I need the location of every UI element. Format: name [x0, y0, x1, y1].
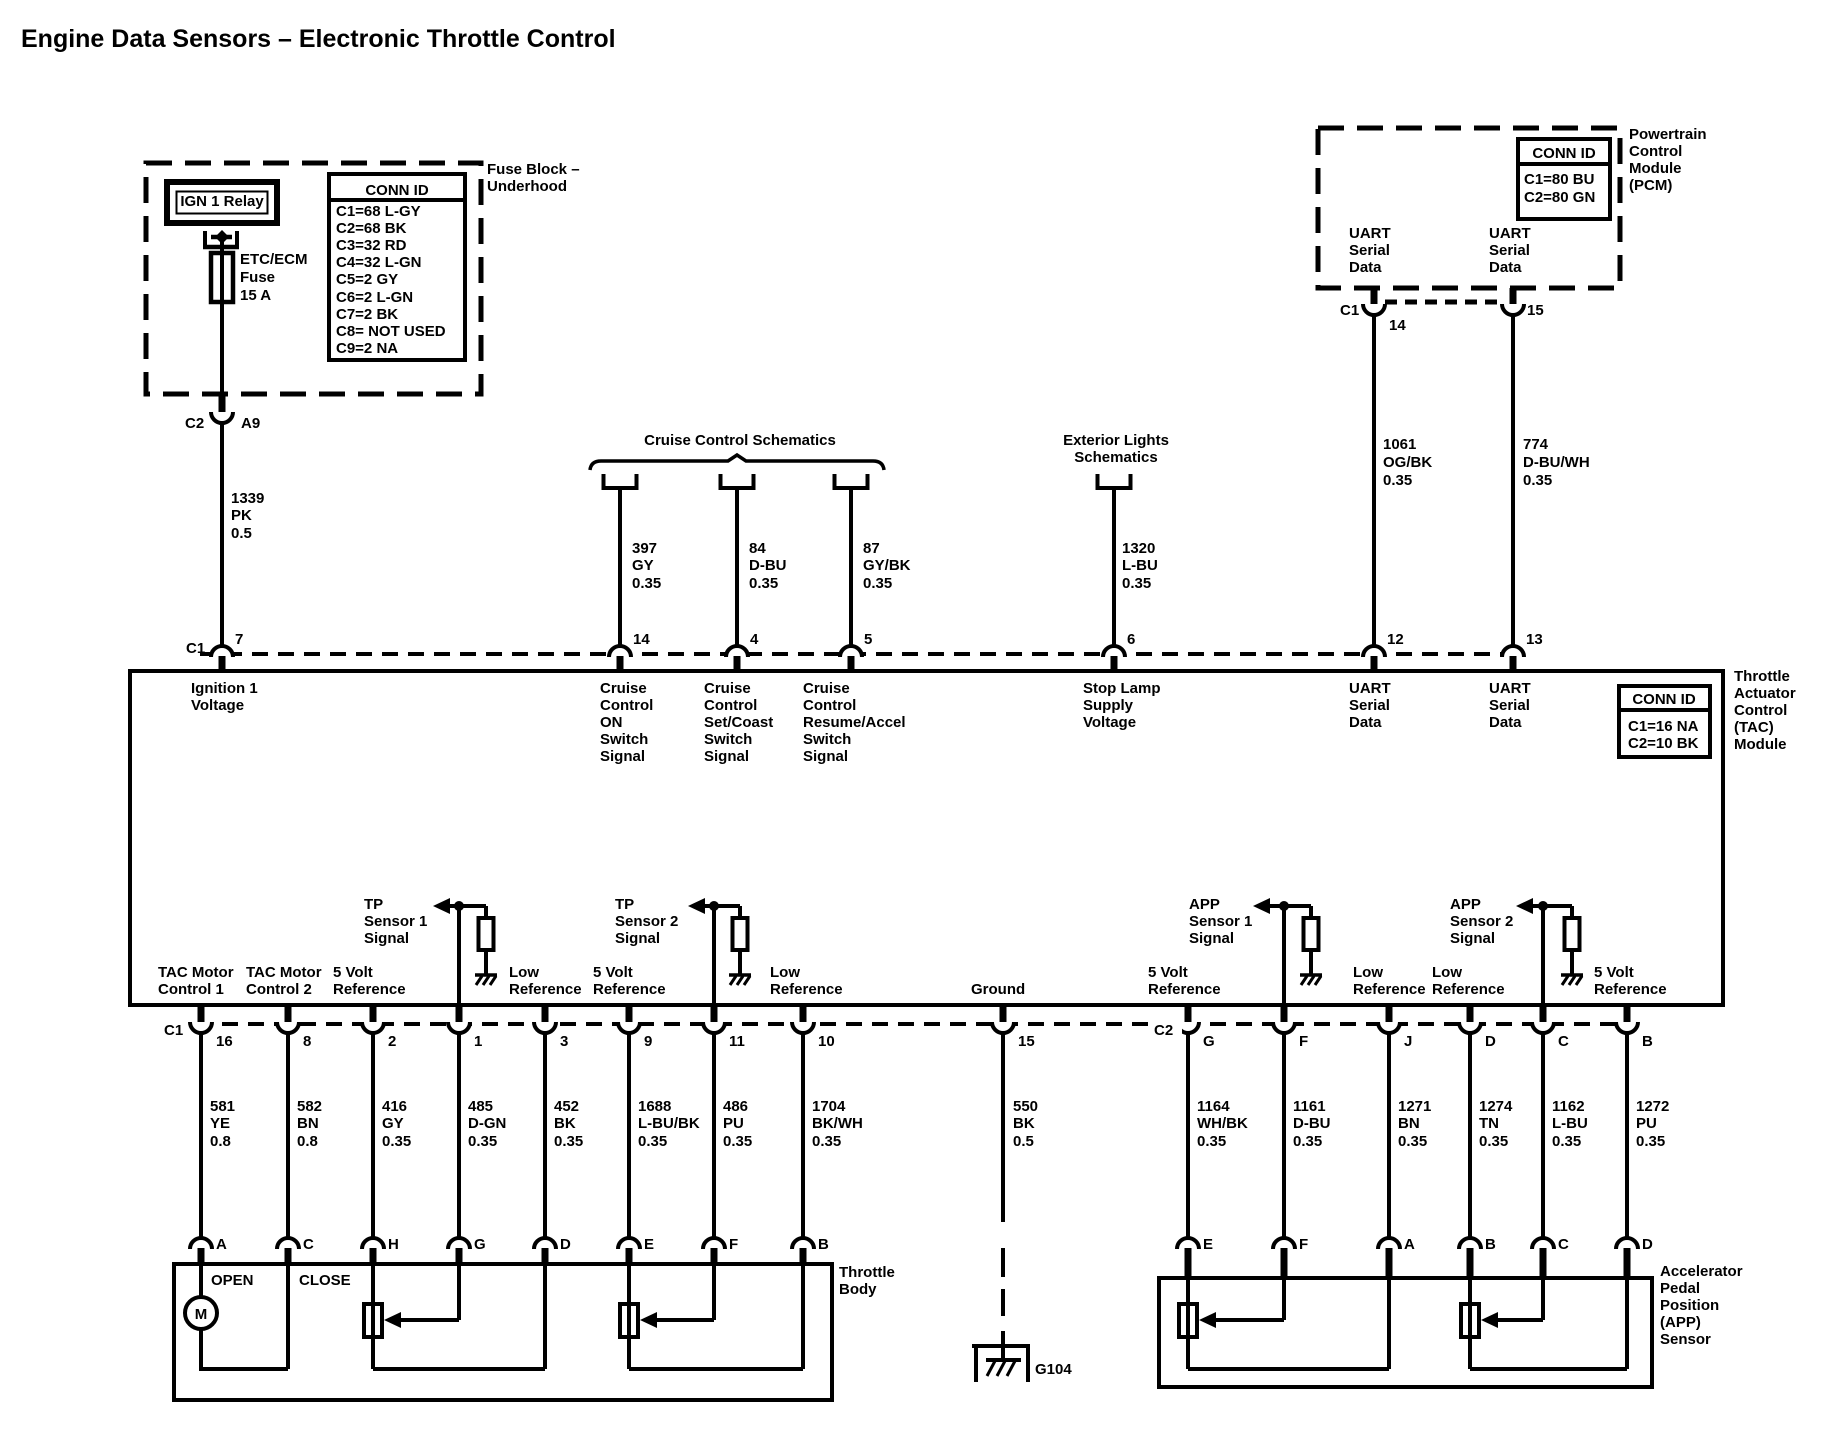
wire 581 YE 0.8 [199, 1033, 203, 1240]
svg-text:A: A [1404, 1236, 1415, 1253]
motor M (throttle motor) [199, 1266, 203, 1297]
svg-text:0.35: 0.35 [1122, 575, 1151, 592]
svg-text:0.35: 0.35 [382, 1133, 411, 1150]
connector pin C (APP sensor) [1532, 1238, 1554, 1249]
svg-text:0.35: 0.35 [554, 1133, 583, 1150]
svg-text:Serial: Serial [1489, 242, 1530, 259]
wire 1339 PK 0.5 [220, 423, 224, 648]
svg-text:Cruise Control Schematics: Cruise Control Schematics [644, 432, 836, 449]
arrow wiper APP sensor 1 [1199, 1312, 1216, 1328]
svg-text:C2: C2 [185, 415, 204, 432]
wire TP sensor 2 wiper (E) [627, 1266, 631, 1369]
svg-text:0.35: 0.35 [1479, 1133, 1508, 1150]
svg-text:C1: C1 [186, 640, 205, 657]
svg-text:416: 416 [382, 1098, 407, 1115]
junction dot [709, 901, 719, 911]
dashed connector line (PCM C1) [1385, 300, 1502, 305]
svg-text:Control: Control [1734, 702, 1787, 719]
svg-text:Engine Data Sensors – Electron: Engine Data Sensors – Electronic Throttl… [21, 25, 616, 53]
accelerator pedal position (APP) sensor box [1159, 1278, 1652, 1387]
svg-text:CONN ID: CONN ID [1532, 145, 1596, 162]
svg-text:C1=80 BU: C1=80 BU [1524, 171, 1594, 188]
fuse F ETC/ECM 15 A [211, 253, 233, 302]
svg-text:BN: BN [297, 1115, 319, 1132]
connector C1 pin 6 (TAC top) [1103, 646, 1125, 657]
svg-text:Stop Lamp: Stop Lamp [1083, 680, 1161, 697]
wire (signal tap) [448, 904, 486, 908]
svg-text:(TAC): (TAC) [1734, 719, 1774, 736]
svg-text:GY: GY [632, 557, 654, 574]
wire motor to close winding [199, 1329, 203, 1369]
wire APP sensor 1 5V (E) [1186, 1280, 1190, 1369]
wire junction to pin [712, 906, 716, 1005]
svg-text:15: 15 [1527, 302, 1544, 319]
svg-text:Signal: Signal [600, 748, 645, 765]
svg-text:84: 84 [749, 540, 766, 557]
arrow (Sensor 1 signal) [433, 898, 450, 914]
wire junction to pin [1541, 906, 1545, 1005]
svg-text:0.35: 0.35 [1398, 1133, 1427, 1150]
svg-text:485: 485 [468, 1098, 493, 1115]
throttle body box [174, 1264, 832, 1400]
svg-text:CONN ID: CONN ID [1632, 691, 1696, 708]
svg-text:GY/BK: GY/BK [863, 557, 911, 574]
svg-text:WH/BK: WH/BK [1197, 1115, 1248, 1132]
svg-text:0.35: 0.35 [863, 575, 892, 592]
svg-text:Reference: Reference [770, 981, 843, 998]
svg-text:GY: GY [382, 1115, 404, 1132]
svg-text:Data: Data [1489, 714, 1522, 731]
wire 84 D-BU 0.35 [735, 488, 739, 648]
svg-text:Control: Control [803, 697, 856, 714]
chassis ground [475, 973, 497, 977]
svg-text:OPEN: OPEN [211, 1272, 254, 1289]
svg-text:0.5: 0.5 [231, 525, 252, 542]
brace (cruise control schematics) [590, 455, 884, 470]
connector C1 pin 11 (TAC bottom) [711, 1005, 718, 1022]
svg-text:87: 87 [863, 540, 880, 557]
svg-text:12: 12 [1387, 631, 1404, 648]
svg-text:774: 774 [1523, 436, 1549, 453]
svg-text:1704: 1704 [812, 1098, 846, 1115]
svg-text:0.35: 0.35 [1293, 1133, 1322, 1150]
svg-text:UART: UART [1489, 680, 1531, 697]
svg-text:1162: 1162 [1552, 1098, 1585, 1115]
CONN ID table (PCM) [1518, 139, 1610, 219]
svg-text:Signal: Signal [615, 930, 660, 947]
fuse block - underhood dashed box [146, 163, 481, 394]
connector C2 pin J (TAC bottom) [1386, 1005, 1393, 1022]
svg-text:B: B [1642, 1033, 1653, 1050]
svg-text:C2: C2 [1154, 1022, 1173, 1039]
connector C2 pin A9 (fuse block output) [219, 394, 226, 412]
svg-text:3: 3 [560, 1033, 568, 1050]
svg-text:B: B [818, 1236, 829, 1253]
label C2 (TAC bottom row) [1149, 1018, 1182, 1037]
connector C1 pin 1 (TAC bottom) [456, 1005, 463, 1022]
svg-text:Control: Control [1629, 143, 1682, 160]
svg-text:Data: Data [1349, 714, 1382, 731]
connector pin B (throttle body) [792, 1238, 814, 1249]
svg-text:Low: Low [509, 964, 539, 981]
svg-text:Signal: Signal [364, 930, 409, 947]
connector pin G (throttle body) [448, 1238, 470, 1249]
svg-text:7: 7 [235, 631, 243, 648]
wire APP sensor 2 5V (B) [1468, 1280, 1472, 1369]
svg-text:Ignition 1: Ignition 1 [191, 680, 258, 697]
svg-text:Fuse Block –: Fuse Block – [487, 161, 580, 178]
svg-text:Control 2: Control 2 [246, 981, 312, 998]
connector pin D (throttle body) [534, 1238, 556, 1249]
svg-text:L-BU/BK: L-BU/BK [638, 1115, 700, 1132]
svg-text:5 Volt: 5 Volt [333, 964, 373, 981]
svg-text:E: E [644, 1236, 654, 1253]
svg-text:Throttle: Throttle [1734, 668, 1790, 685]
svg-text:ETC/ECM: ETC/ECM [240, 251, 308, 268]
svg-text:Module: Module [1629, 160, 1682, 177]
svg-text:8: 8 [303, 1033, 311, 1050]
svg-text:PK: PK [231, 507, 252, 524]
svg-text:C9=2 NA: C9=2 NA [336, 340, 398, 357]
arrow wiper APP sensor 2 [1481, 1312, 1498, 1328]
svg-text:D: D [1642, 1236, 1653, 1253]
svg-text:C: C [303, 1236, 314, 1253]
svg-text:C: C [1558, 1033, 1569, 1050]
svg-text:C8= NOT USED: C8= NOT USED [336, 323, 446, 340]
wire 1274 TN 0.35 [1468, 1033, 1472, 1240]
dashed ground wire segments [1001, 1248, 1005, 1277]
svg-text:5 Volt: 5 Volt [593, 964, 633, 981]
svg-text:1164: 1164 [1197, 1098, 1230, 1115]
svg-text:14: 14 [1389, 317, 1406, 334]
svg-text:Fuse: Fuse [240, 269, 275, 286]
svg-text:Reference: Reference [333, 981, 406, 998]
svg-text:0.35: 0.35 [1552, 1133, 1581, 1150]
chassis ground [729, 973, 751, 977]
svg-text:Reference: Reference [593, 981, 666, 998]
connector C1 pin 4 (TAC top) [726, 646, 748, 657]
svg-text:Voltage: Voltage [191, 697, 244, 714]
wire 1688 L-BU/BK 0.35 [627, 1033, 631, 1240]
connector C1 pin 14 (PCM) [1371, 288, 1378, 304]
svg-text:BK/WH: BK/WH [812, 1115, 863, 1132]
svg-text:1271: 1271 [1398, 1098, 1431, 1115]
svg-text:C2=80 GN: C2=80 GN [1524, 189, 1595, 206]
svg-text:F: F [1299, 1033, 1308, 1050]
svg-text:C3=32 RD: C3=32 RD [336, 237, 407, 254]
dashed connector line C1 (TAC top) [200, 652, 1515, 656]
svg-text:D-BU/WH: D-BU/WH [1523, 454, 1590, 471]
svg-text:Switch: Switch [704, 731, 752, 748]
wire 774 D-BU/WH 0.35 [1511, 315, 1515, 648]
svg-text:1272: 1272 [1636, 1098, 1669, 1115]
connector C1 pin 3 (TAC bottom) [542, 1005, 549, 1022]
wire 87 GY/BK 0.35 [849, 488, 853, 648]
wire 1161 D-BU 0.35 [1282, 1033, 1286, 1240]
connector C1 pin 14 (TAC top) [609, 646, 631, 657]
connector pin E (APP sensor) [1177, 1238, 1199, 1249]
svg-text:Exterior Lights: Exterior Lights [1063, 432, 1169, 449]
svg-text:0.8: 0.8 [210, 1133, 231, 1150]
svg-text:BK: BK [554, 1115, 576, 1132]
svg-text:YE: YE [210, 1115, 230, 1132]
svg-text:Control 1: Control 1 [158, 981, 224, 998]
wire APP sensor 1 low (A) [1188, 1367, 1389, 1371]
svg-text:D-GN: D-GN [468, 1115, 506, 1132]
wire 1320 L-BU 0.35 [1112, 488, 1116, 648]
svg-text:15: 15 [1018, 1033, 1035, 1050]
svg-text:10: 10 [818, 1033, 835, 1050]
svg-text:TP: TP [615, 896, 634, 913]
svg-text:0.35: 0.35 [749, 575, 778, 592]
wire 452 BK 0.35 [543, 1033, 547, 1240]
potentiometer TP sensor 1 [364, 1304, 382, 1337]
svg-text:Throttle: Throttle [839, 1264, 895, 1281]
svg-text:Pedal: Pedal [1660, 1280, 1700, 1297]
connector pin F (APP sensor) [1273, 1238, 1295, 1249]
svg-text:Resume/Accel: Resume/Accel [803, 714, 906, 731]
off-page connector (exterior lights) [1098, 474, 1131, 488]
wire 485 D-GN 0.35 [457, 1033, 461, 1240]
svg-text:0.5: 0.5 [1013, 1133, 1034, 1150]
off-page connector (cruise wire 397) [604, 474, 637, 488]
svg-text:1: 1 [474, 1033, 482, 1050]
connector pin B (APP sensor) [1459, 1238, 1481, 1249]
svg-text:486: 486 [723, 1098, 748, 1115]
svg-text:4: 4 [750, 631, 759, 648]
connector C2 pin F (TAC bottom) [1281, 1005, 1288, 1022]
connector C1 pin 10 (TAC bottom) [800, 1005, 807, 1022]
wire (signal tap) [1268, 904, 1311, 908]
wire 1162 L-BU 0.35 [1541, 1033, 1545, 1240]
svg-text:Serial: Serial [1489, 697, 1530, 714]
svg-text:L-BU: L-BU [1552, 1115, 1588, 1132]
connector pin H (throttle body) [362, 1238, 384, 1249]
svg-text:G: G [474, 1236, 486, 1253]
wire (signal tap) [703, 904, 740, 908]
wire junction to pin [1282, 906, 1286, 1005]
svg-text:1061: 1061 [1383, 436, 1416, 453]
svg-text:397: 397 [632, 540, 657, 557]
wire 416 GY 0.35 [371, 1033, 375, 1240]
wire 1271 BN 0.35 [1387, 1033, 1391, 1240]
connector C1 pin 15 (PCM) [1510, 288, 1517, 304]
wire (signal tap) [1531, 904, 1572, 908]
arrow (Sensor 1 signal) [1253, 898, 1270, 914]
svg-text:APP: APP [1450, 896, 1481, 913]
connector C1 pin 5 (TAC top) [840, 646, 862, 657]
connector C2 pin D (TAC bottom) [1467, 1005, 1474, 1022]
svg-text:550: 550 [1013, 1098, 1038, 1115]
svg-text:OG/BK: OG/BK [1383, 454, 1432, 471]
svg-text:2: 2 [388, 1033, 396, 1050]
svg-text:TAC Motor: TAC Motor [158, 964, 234, 981]
svg-text:Position: Position [1660, 1297, 1719, 1314]
off-page connector (cruise wire 84) [721, 474, 754, 488]
svg-text:CONN ID: CONN ID [365, 182, 429, 199]
svg-text:ON: ON [600, 714, 623, 731]
svg-text:Signal: Signal [1189, 930, 1234, 947]
svg-text:Signal: Signal [1450, 930, 1495, 947]
arrow wiper TP sensor 2 [640, 1312, 657, 1328]
CONN ID table (fuse block) [329, 174, 465, 360]
svg-text:Control: Control [704, 697, 757, 714]
svg-text:Serial: Serial [1349, 697, 1390, 714]
svg-text:TN: TN [1479, 1115, 1499, 1132]
powertrain control module (PCM) dashed box [1318, 128, 1620, 288]
svg-text:H: H [388, 1236, 399, 1253]
svg-text:Cruise: Cruise [803, 680, 850, 697]
connector C1 pin 12 (TAC top) [1363, 646, 1385, 657]
svg-text:6: 6 [1127, 631, 1135, 648]
ground G104 symbol [972, 1344, 1030, 1348]
svg-text:0.35: 0.35 [723, 1133, 752, 1150]
svg-text:BN: BN [1398, 1115, 1420, 1132]
svg-text:5: 5 [864, 631, 872, 648]
svg-text:13: 13 [1526, 631, 1543, 648]
junction dot [454, 901, 464, 911]
svg-text:Body: Body [839, 1281, 877, 1298]
svg-text:Reference: Reference [1594, 981, 1667, 998]
svg-text:TAC Motor: TAC Motor [246, 964, 322, 981]
svg-text:C1=16 NA: C1=16 NA [1628, 718, 1699, 735]
svg-text:581: 581 [210, 1098, 235, 1115]
dashed connector line C1/C2 (TAC bottom) [196, 1022, 1630, 1026]
svg-text:Sensor 2: Sensor 2 [1450, 913, 1513, 930]
wire 1164 WH/BK 0.35 [1186, 1033, 1190, 1240]
svg-text:Reference: Reference [1432, 981, 1505, 998]
svg-text:F: F [1299, 1236, 1308, 1253]
svg-text:IGN 1 Relay: IGN 1 Relay [180, 193, 264, 210]
svg-text:Sensor: Sensor [1660, 1331, 1711, 1348]
potentiometer TP sensor 2 [620, 1304, 638, 1337]
throttle actuator control (TAC) module box [130, 671, 1723, 1005]
svg-text:G: G [1203, 1033, 1215, 1050]
resistor (pull-up Sensor 1) [484, 906, 488, 918]
svg-text:11: 11 [729, 1033, 745, 1050]
svg-text:PU: PU [1636, 1115, 1657, 1132]
arrow (Sensor 2 signal) [688, 898, 705, 914]
wire 397 GY 0.35 [618, 488, 622, 648]
svg-text:0.8: 0.8 [297, 1133, 318, 1150]
svg-text:0.35: 0.35 [1197, 1133, 1226, 1150]
svg-text:Reference: Reference [1353, 981, 1426, 998]
svg-text:Reference: Reference [509, 981, 582, 998]
svg-text:Data: Data [1349, 259, 1382, 276]
svg-text:Module: Module [1734, 736, 1787, 753]
svg-text:Powertrain: Powertrain [1629, 126, 1707, 143]
svg-text:1339: 1339 [231, 490, 264, 507]
svg-text:C5=2 GY: C5=2 GY [336, 271, 398, 288]
connector pin A (throttle body) [190, 1238, 212, 1249]
svg-text:M: M [195, 1306, 208, 1323]
wire 1061 OG/BK 0.35 [1372, 315, 1376, 648]
wire 1704 BK/WH 0.35 [801, 1033, 805, 1240]
svg-text:Data: Data [1489, 259, 1522, 276]
wire 550 BK 0.5 (ground) [1001, 1033, 1005, 1222]
svg-text:F: F [729, 1236, 738, 1253]
svg-text:Signal: Signal [803, 748, 848, 765]
potentiometer APP sensor 1 [1179, 1304, 1197, 1337]
connector C2 pin B (TAC bottom) [1624, 1005, 1631, 1022]
svg-text:L-BU: L-BU [1122, 557, 1158, 574]
svg-text:1161: 1161 [1293, 1098, 1326, 1115]
svg-text:Low: Low [770, 964, 800, 981]
chassis ground [1300, 973, 1322, 977]
svg-text:C4=32 L-GN: C4=32 L-GN [336, 254, 421, 271]
potentiometer APP sensor 2 [1461, 1304, 1479, 1337]
connector pin A (APP sensor) [1378, 1238, 1400, 1249]
svg-text:0.35: 0.35 [1383, 472, 1412, 489]
svg-text:A: A [216, 1236, 227, 1253]
svg-text:Sensor 1: Sensor 1 [364, 913, 427, 930]
svg-text:Switch: Switch [803, 731, 851, 748]
svg-text:(APP): (APP) [1660, 1314, 1701, 1331]
svg-text:(PCM): (PCM) [1629, 177, 1672, 194]
svg-text:APP: APP [1189, 896, 1220, 913]
svg-text:J: J [1404, 1033, 1412, 1050]
svg-text:D: D [560, 1236, 571, 1253]
svg-text:D: D [1485, 1033, 1496, 1050]
svg-text:UART: UART [1489, 225, 1531, 242]
wire TP sensor 2 low (B) [629, 1367, 803, 1371]
wire 1272 PU 0.35 [1625, 1033, 1629, 1240]
svg-text:Sensor 2: Sensor 2 [615, 913, 678, 930]
svg-text:Actuator: Actuator [1734, 685, 1796, 702]
svg-text:Schematics: Schematics [1074, 449, 1157, 466]
wire relay to fuse [220, 242, 224, 394]
connector pin D (APP sensor) [1616, 1238, 1638, 1249]
svg-text:D-BU: D-BU [1293, 1115, 1331, 1132]
svg-text:Serial: Serial [1349, 242, 1390, 259]
resistor (pull-up Sensor 1) [1309, 906, 1313, 918]
arrow (Sensor 2 signal) [1516, 898, 1533, 914]
wire TP sensor 1 wiper (H) [371, 1266, 375, 1369]
svg-text:C7=2 BK: C7=2 BK [336, 306, 398, 323]
svg-text:5 Volt: 5 Volt [1594, 964, 1634, 981]
svg-text:C2=68 BK: C2=68 BK [336, 220, 407, 237]
svg-text:C2=10 BK: C2=10 BK [1628, 735, 1699, 752]
svg-text:C1: C1 [1340, 302, 1359, 319]
off-page connector (cruise wire 87) [835, 474, 868, 488]
connector pin C (throttle body) [277, 1238, 299, 1249]
relay contact symbol [203, 231, 207, 247]
connector C2 pin G (TAC bottom) [1185, 1005, 1192, 1022]
svg-text:C6=2 L-GN: C6=2 L-GN [336, 289, 413, 306]
wire APP sensor 2 low (D) [1470, 1367, 1627, 1371]
svg-text:Low: Low [1353, 964, 1383, 981]
junction dot [1538, 901, 1548, 911]
svg-text:UART: UART [1349, 680, 1391, 697]
junction dot [1279, 901, 1289, 911]
connector C1 pin 15 (TAC bottom) [1000, 1005, 1007, 1022]
connector C1 pin 2 (TAC bottom) [370, 1005, 377, 1022]
svg-text:5 Volt: 5 Volt [1148, 964, 1188, 981]
svg-text:Low: Low [1432, 964, 1462, 981]
relay K IGN 1 Relay box [167, 182, 277, 223]
connector C2 pin C (TAC bottom) [1540, 1005, 1547, 1022]
svg-text:Cruise: Cruise [704, 680, 751, 697]
connector pin E (throttle body) [618, 1238, 640, 1249]
svg-text:0.35: 0.35 [812, 1133, 841, 1150]
svg-text:Supply: Supply [1083, 697, 1134, 714]
chassis ground [1561, 973, 1583, 977]
resistor (pull-up Sensor 2) [738, 906, 742, 918]
svg-text:1320: 1320 [1122, 540, 1155, 557]
svg-text:9: 9 [644, 1033, 652, 1050]
svg-text:Signal: Signal [704, 748, 749, 765]
svg-text:0.35: 0.35 [638, 1133, 667, 1150]
